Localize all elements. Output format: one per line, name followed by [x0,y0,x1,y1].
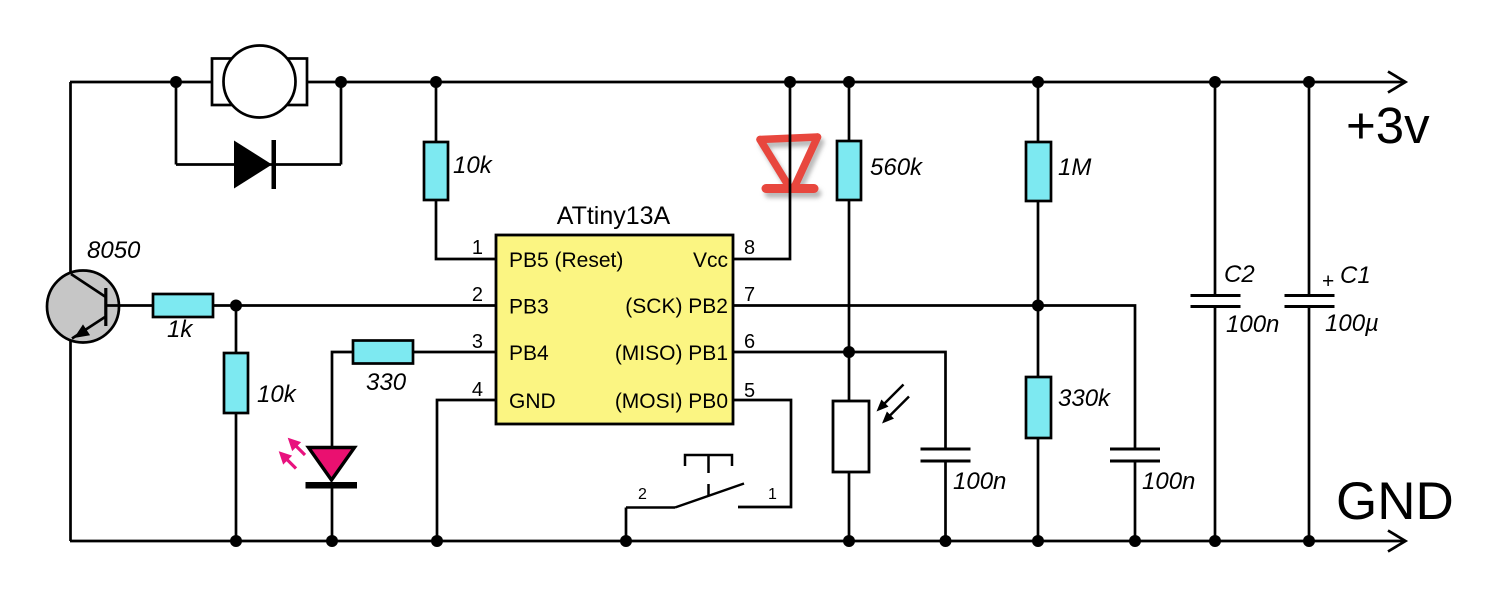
pin number 2 [472,284,483,306]
svg-text:1: 1 [472,237,483,259]
node PB1/LDR junction [843,346,855,358]
label 100n [953,468,1006,495]
svg-text:(MOSI) PB0: (MOSI) PB0 [615,390,728,413]
node PB2/1M/330k junction [1032,300,1044,312]
wire R1k to PB3 (pin 2) [213,304,496,307]
resistor R 560k [837,141,861,200]
label 330k [1058,385,1112,412]
svg-text:330k: 330k [1058,385,1112,412]
svg-text:8050: 8050 [87,237,141,264]
wire R 10k to pin 1 [436,200,496,259]
svg-text:560k: 560k [870,154,924,181]
wire top +3v rail [70,72,1406,93]
pin number 1 [472,237,483,259]
svg-text:10k: 10k [453,152,494,179]
label 1M [1058,154,1091,181]
svg-text:4: 4 [472,379,483,401]
label 560k [870,154,924,181]
switch S1 pushbutton [626,455,744,508]
svg-text:PB3: PB3 [509,296,549,319]
wire R 560k to LDR [848,200,851,401]
svg-text:7: 7 [744,284,755,306]
svg-text:3: 3 [472,331,483,353]
diode annotation (red marker) [760,137,818,189]
resistor R 330 [353,341,413,364]
svg-text:C2: C2 [1224,261,1255,288]
node 330k/GND [1032,535,1044,547]
node C2/GND [1209,535,1221,547]
resistor R 10k (reset pull-up) [424,142,448,200]
node base/10k junction [230,300,242,312]
wire switch to GND rail [625,508,628,542]
svg-text:GND: GND [1336,472,1454,531]
pin number 3 [472,331,483,353]
svg-text:+3v: +3v [1346,97,1430,154]
svg-text:8: 8 [744,237,755,259]
wire pin 5 PB0 to switch [733,400,791,507]
wire cap to GND rail [944,461,947,541]
pin number 2 (switch) [638,486,647,503]
svg-text:2: 2 [472,284,483,306]
svg-text:100n: 100n [1226,311,1279,338]
resistor R 330k [1026,377,1051,438]
node motor right/+3v [335,76,347,88]
wire motor right branch [340,82,343,165]
wire pin 6 PB1 net [733,352,946,449]
wire R 330k to GND rail [1037,438,1040,541]
wire bottom GND rail [70,531,1406,552]
svg-text:2: 2 [638,486,647,503]
svg-text:1M: 1M [1058,154,1091,181]
label 100n [1226,311,1279,338]
wire base to R 1k [106,304,153,307]
diode D1 flyback [234,140,276,189]
svg-text:6: 6 [744,331,755,353]
resistor R 10k (base pulldown) [224,353,248,413]
label 1k [167,316,194,343]
wire +3v rail to R 1M [1037,82,1040,142]
wire LED to GND rail [331,488,334,541]
svg-text:(MISO) PB1: (MISO) PB1 [615,342,728,365]
wire R330 to pin 3 [413,351,496,354]
svg-text:ATtiny13A: ATtiny13A [557,202,671,230]
wire R330 to LED [332,352,353,447]
label C2 [1224,261,1255,288]
svg-text:+: + [1322,270,1334,293]
pin number 8 [744,237,755,259]
label 10k [257,381,298,408]
wire +3v rail to R 560k [848,82,851,141]
svg-text:C1: C1 [1340,262,1371,289]
wire diode horizontal [176,163,341,166]
wire R 1M to junction [1037,201,1040,377]
node motor left/+3v [170,76,182,88]
svg-text:1: 1 [768,486,777,503]
node 560k/+3v [843,76,855,88]
svg-text:PB5 (Reset): PB5 (Reset) [509,249,623,272]
node cap/GND [1129,535,1141,547]
node switch/GND [620,535,632,547]
svg-text:100µ: 100µ [1325,310,1379,337]
node Vcc/+3v [784,76,796,88]
node LDR/GND [843,535,855,547]
wire C2 to GND rail [1214,307,1217,542]
capacitor 100n (PB1) [921,449,971,461]
wire junction to R 10k (lower) [235,306,238,354]
transistor Q1 8050 [47,271,119,343]
node cap/GND [940,535,952,547]
wire +3v rail to C2 [1214,82,1217,295]
node C1/GND [1303,535,1315,547]
wire cap to GND rail [1134,461,1137,541]
svg-text:10k: 10k [257,381,298,408]
node +3v net label [1346,97,1430,154]
capacitor C1 [1285,296,1335,307]
label 330 [366,369,407,396]
wire LDR to GND rail [848,472,851,541]
wire pin 4 GND [437,400,496,541]
wire pin 7 PB2 net [733,306,1135,450]
label 100n [1142,468,1195,495]
label 100µ [1325,310,1379,337]
label + C1 [1322,262,1371,293]
capacitor 100n (PB2) [1110,449,1160,461]
node C1/+3v [1303,76,1315,88]
pin number 5 [744,380,755,402]
node 10k/+3v [430,76,442,88]
pin number 1 (switch) [768,486,777,503]
wire motor left branch [175,82,178,165]
svg-text:Vcc: Vcc [693,249,728,272]
label 8050 [87,237,141,264]
wire R 10k to GND rail [235,413,238,541]
svg-text:PB4: PB4 [509,342,549,365]
wire left vertical (collector to +3v rail) [69,82,72,274]
wire +3v rail to R 10k (top) [435,82,438,142]
photoresistor LDR [833,385,909,473]
wire left vertical (emitter to GND rail) [69,338,72,541]
label 10k [453,152,494,179]
pin number 6 [744,331,755,353]
svg-text:330: 330 [366,369,407,396]
resistor R 1k [153,294,213,317]
node LED/GND [326,535,338,547]
LED D2 [280,439,358,489]
node GND net label [1336,472,1454,531]
pin number 4 [472,379,483,401]
resistor R 1M [1026,142,1051,201]
capacitor C2 [1191,296,1241,307]
motor M1 [212,46,307,118]
node 10k/GND [230,535,242,547]
node pin4/GND [431,535,443,547]
wire pin 8 Vcc to +3v rail [733,82,790,259]
node 1M/+3v [1032,76,1044,88]
pin number 7 [744,284,755,306]
label ATtiny13A [557,202,671,230]
wire C1 to GND rail [1308,307,1311,542]
svg-text:100n: 100n [1142,468,1195,495]
svg-text:1k: 1k [167,316,194,343]
wire +3v rail to C1 [1308,82,1311,295]
svg-text:(SCK) PB2: (SCK) PB2 [625,295,728,318]
svg-text:100n: 100n [953,468,1006,495]
node C2/+3v [1209,76,1221,88]
op-amp U1 ATtiny13A [496,235,733,424]
svg-text:GND: GND [509,390,556,413]
